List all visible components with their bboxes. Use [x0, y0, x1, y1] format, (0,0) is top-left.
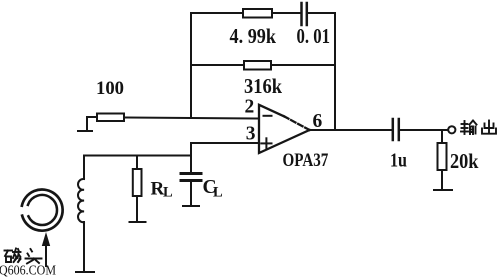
svg-text:0. 01: 0. 01 [297, 24, 331, 48]
svg-text:316k: 316k [244, 74, 282, 98]
svg-text:20k: 20k [450, 149, 479, 173]
svg-text:3: 3 [246, 124, 256, 145]
svg-text:2: 2 [245, 96, 255, 117]
svg-text:Q606.COM: Q606.COM [0, 264, 56, 279]
svg-text:OPA37: OPA37 [283, 150, 329, 171]
svg-text:4. 99k: 4. 99k [230, 24, 277, 48]
svg-text:L: L [163, 185, 173, 201]
svg-text:6: 6 [313, 111, 323, 132]
svg-text:L: L [213, 185, 223, 201]
svg-text:100: 100 [96, 79, 124, 99]
svg-text:1u: 1u [390, 150, 407, 172]
